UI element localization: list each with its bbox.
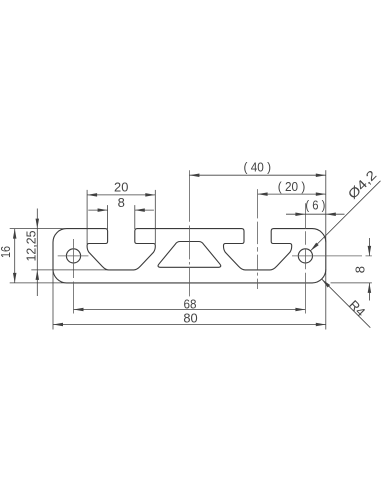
leader R4 (corner radius) (322, 279, 371, 328)
right hole Ø4.2 (298, 249, 312, 263)
svg-text:8: 8 (118, 195, 125, 210)
middle vertical centerline (188, 170, 190, 296)
svg-text:16: 16 (0, 246, 13, 258)
dimension (20) right slot to right edge (258, 179, 326, 196)
left hole vertical centerline (73, 239, 75, 314)
dimension 68 (hole spacing) (74, 296, 306, 311)
right hole horizontal centerline (292, 255, 372, 257)
dimension 16 (profile height) (0, 229, 67, 283)
svg-text:( 40 ): ( 40 ) (244, 159, 272, 174)
svg-text:68: 68 (184, 296, 197, 311)
svg-text:80: 80 (183, 310, 197, 325)
right slot vertical centerline (257, 189, 259, 289)
dimension 20 (slot cavity width) (87, 179, 155, 244)
left hole Ø4.2 (66, 249, 80, 263)
dimension (40) center to right edge (189, 159, 325, 242)
profile cross-section outline (80x16) with T-slot cavities (53, 229, 326, 283)
dimension (6) hole to right edge (286, 198, 345, 216)
right hole vertical centerline (304, 203, 306, 313)
svg-text:12,25: 12,25 (24, 231, 39, 262)
left hole horizontal centerline (58, 255, 89, 257)
svg-text:R4: R4 (346, 297, 368, 319)
svg-text:( 6 ): ( 6 ) (305, 198, 325, 213)
center trapezoid cavity (158, 242, 221, 268)
dimension 8 (hole center to bottom) (331, 238, 372, 301)
dimension 12,25 (slot depth) (24, 209, 110, 297)
dimension 8 (slot opening width) (88, 195, 154, 229)
svg-text:8: 8 (352, 266, 367, 273)
leader Ø4,2 (hole diameter) (310, 167, 380, 251)
svg-text:20: 20 (114, 179, 128, 194)
svg-text:( 20 ): ( 20 ) (278, 179, 306, 194)
dimension 80 (profile width) (53, 269, 326, 329)
svg-text:Ø4,2: Ø4,2 (345, 167, 380, 202)
